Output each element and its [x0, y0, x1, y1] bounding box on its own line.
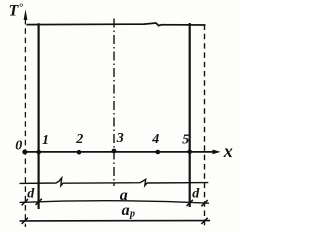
- x-axis line: [23, 151, 214, 153]
- tick on line3 at x=204.5: [201, 218, 207, 224]
- tick on line2 at x=24.8: [22, 199, 28, 205]
- node 4 dot: [156, 150, 161, 155]
- center dash-dot line (x=114): [113, 19, 115, 187]
- tick on line2 at x=204.5: [201, 200, 207, 206]
- svg-text:2: 2: [75, 132, 83, 147]
- svg-text:3: 3: [116, 131, 124, 146]
- dimension line 1 (d / a / d) with two break symbols: [20, 178, 209, 186]
- left wall line (x=38.6): [37, 23, 39, 209]
- tick on line2 at x=189.7: [187, 200, 193, 206]
- right dashed line (x=204.5): [204, 25, 206, 227]
- node 3 dot: [112, 149, 117, 154]
- dimension line 2 (a_p): [20, 201, 210, 204]
- node 0 dot: [22, 150, 27, 155]
- svg-text:1: 1: [42, 133, 49, 148]
- svg-text:°: °: [19, 1, 24, 13]
- y-axis arrowhead: [24, 9, 28, 20]
- tick on line2 at x=38.7: [36, 199, 42, 205]
- svg-text:p: p: [129, 209, 135, 220]
- node 1 dot: [36, 150, 41, 155]
- svg-text:5: 5: [182, 133, 189, 148]
- dimension line 3 (overall): [20, 220, 211, 222]
- svg-text:x: x: [223, 141, 233, 161]
- svg-text:0: 0: [15, 139, 22, 154]
- x-axis arrowhead: [213, 150, 221, 155]
- svg-text:a: a: [122, 202, 130, 219]
- svg-text:4: 4: [151, 132, 159, 147]
- tick on line3 at x=24.8: [22, 218, 28, 224]
- node 5 dot: [187, 150, 192, 155]
- right wall line (x=189.7): [189, 23, 191, 207]
- y-axis dashed line (left, x=25.4): [24, 19, 26, 227]
- top horizontal line with break symbol: [27, 23, 206, 26]
- paper background: [0, 0, 240, 234]
- svg-text:d: d: [27, 187, 35, 202]
- svg-text:d: d: [192, 187, 200, 202]
- node 2 dot: [77, 150, 82, 155]
